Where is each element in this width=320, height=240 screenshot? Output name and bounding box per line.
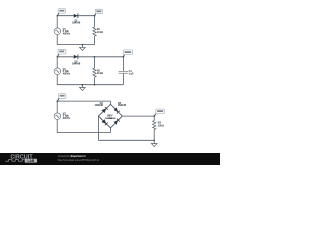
svg-text:10 kΩ: 10 kΩ [97,32,103,34]
bridge diode D6 (lower-left, points to bottom) [102,119,107,124]
wire: left rail circuit 1 [56,16,58,45]
ground circuit 2 [81,85,83,88]
resistor R2 [93,68,97,77]
wire: resistor branch circuit 2 [94,57,96,85]
ground circuit 1 [81,45,83,48]
bridge diamond wires [98,104,122,128]
svg-text:1N4148: 1N4148 [108,118,116,120]
wire: left vertex down [97,116,99,140]
logo LAB badge [25,159,37,163]
svg-text:10 kΩ: 10 kΩ [97,73,103,75]
wire: bottom rail circuit 2 [57,84,123,86]
node flag circuit 3 left [57,98,59,101]
ground circuit 3 [153,140,155,143]
resistor R1 [93,27,97,36]
svg-text:1N4148: 1N4148 [72,64,81,66]
wire: bottom vertex to bottom rail [109,128,111,133]
node flag OUT circuit 1 left [57,13,59,16]
wire: right rail circuit 1 [94,16,96,45]
capacitor C1 [118,71,128,74]
wire: top vertex stub [109,101,111,104]
svg-text:100 Ω: 100 Ω [158,125,164,127]
node flag circuit 2 left [57,54,59,57]
svg-text:400 Hz: 400 Hz [63,33,71,35]
voltage source V3 [54,113,61,120]
resistor R3 [152,121,156,130]
wire: right vertex to load [122,115,154,117]
node dot load bottom [153,139,155,141]
wire: top rail circuit 3 [57,100,110,102]
svg-text:1N4148: 1N4148 [72,23,81,25]
node dot resistor top circuit 2 [94,56,96,58]
svg-text:http://circuitlab.com/c/8T3hpk: http://circuitlab.com/c/8T3hpkzd27v2 [58,158,100,162]
node flag circuit 3 load top [154,114,156,117]
node flag OUT circuit 1 right [95,13,97,15]
wire: lower return to load [98,139,154,141]
voltage source V1 [54,28,61,35]
diode D1 [74,14,78,18]
bridge diode D4 (upper-left, points to top) [102,108,107,113]
svg-text:400 Hz: 400 Hz [63,73,71,75]
node dot ground circuit 2 [82,84,84,86]
bridge diode D5 (upper-right, points to right) [114,107,119,112]
svg-text:400 Hz: 400 Hz [63,118,71,120]
svg-text:1N4148: 1N4148 [95,105,104,107]
wire: load branch [153,116,155,140]
node dot resistor bottom circuit 2 [94,84,96,86]
svg-text:LAB: LAB [28,159,35,163]
wire: bottom rail circuit 3 [57,132,110,134]
wire: left rail circuit 2 [56,57,58,85]
diode D2 [74,55,78,59]
node dot ground circuit 1 [82,44,84,46]
bridge diode D7 (lower-right, points to right) [114,120,119,125]
wire: top rail circuit 2 [57,56,123,58]
wire: top rail circuit 1 [57,15,94,17]
svg-text:ehudshooh | Experiment 4: ehudshooh | Experiment 4 [58,155,86,158]
logo waveform [5,160,24,162]
svg-text:1N4148: 1N4148 [118,105,127,107]
wire: bottom rail circuit 1 [57,44,94,46]
node flag circuit 2 right [123,54,124,56]
wire: capacitor branch circuit 2 [122,57,124,85]
wire: left rail circuit 3 [56,101,58,133]
voltage source V2 [54,68,61,75]
svg-text:1 μF: 1 μF [129,73,134,75]
